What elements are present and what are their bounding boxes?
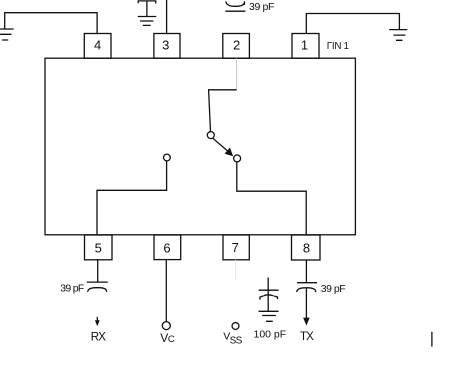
wire left throw down to pin5 (97, 161, 167, 235)
svg-text:1: 1 (301, 38, 308, 53)
wire below C5 with TX arrow (305, 289, 307, 318)
pin 4 box (84, 34, 111, 59)
wire pin8 down (305, 260, 307, 282)
svg-text:100 pF: 100 pF (254, 328, 287, 340)
ground top-left (0, 29, 13, 40)
switch arm SW1 with arrow (213, 139, 229, 153)
pin 7 box (223, 235, 249, 260)
svg-text:3: 3 (162, 38, 169, 53)
ground below C1 (138, 17, 155, 26)
IC body U1 (45, 58, 355, 235)
svg-text:RX: RX (91, 331, 107, 343)
svg-text:39 pF: 39 pF (249, 1, 274, 13)
node VC terminal (circle) (162, 322, 170, 330)
svg-text:8: 8 (303, 241, 310, 256)
capacitor C5 39pF at pin8 (298, 282, 317, 284)
pin 2 box (223, 34, 250, 59)
capacitor C1 (clipped at top, above pin3 ground) (138, 1, 156, 3)
wire pin4 to top-left ground (5, 13, 97, 34)
node VSS terminal (circle) (232, 323, 239, 330)
svg-text:7: 7 (232, 240, 239, 255)
pin 5 box (85, 235, 113, 260)
svg-text:6: 6 (163, 241, 170, 256)
ground below C4 (259, 311, 278, 321)
svg-text:5: 5 (95, 241, 102, 256)
node switch throw right (circle) (234, 155, 241, 162)
wire switch common from pin2 (209, 90, 236, 132)
svg-text:4: 4 (94, 38, 101, 53)
wire pin5 down (97, 260, 99, 282)
wire pin2 into IC (faint) (236, 59, 238, 90)
wire pin3 to top edge (166, 0, 168, 34)
svg-text:39 pF: 39 pF (60, 282, 84, 294)
wire pin7 stub (faint) (235, 260, 237, 279)
capacitor C3 39pF at pin5 (88, 281, 108, 283)
capacitor C4 100pF plates (259, 289, 278, 291)
wire pin6 down (165, 260, 167, 322)
pin 3 box (154, 34, 180, 59)
wire right throw down to pin8 (237, 162, 306, 235)
pin 1 box (292, 34, 319, 59)
wire pin1 to top-right ground (306, 14, 399, 34)
svg-text:TX: TX (300, 331, 314, 343)
wire cap C1 to ground (146, 1, 148, 16)
svg-text:VC: VC (160, 331, 175, 345)
svg-text:2: 2 (233, 38, 240, 53)
stray mark right edge (431, 332, 433, 346)
svg-text:ΓIN 1: ΓIN 1 (327, 41, 349, 52)
node switch throw left (circle, open) (164, 154, 171, 161)
capacitor C2 39pF (floating above pin 2) (226, 2, 245, 6)
arrow RX direction (96, 318, 98, 321)
pin 8 box (292, 235, 321, 260)
node switch pole (circle) (207, 132, 214, 139)
capacitor C4 100pF stem (267, 278, 269, 311)
pin 6 box (154, 235, 181, 260)
svg-text:39 pF: 39 pF (321, 283, 345, 295)
ground top-right (390, 30, 407, 41)
svg-text:VSS: VSS (223, 330, 242, 346)
